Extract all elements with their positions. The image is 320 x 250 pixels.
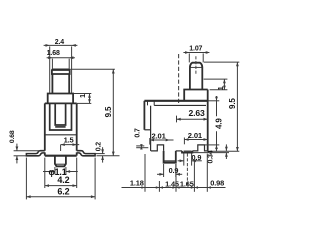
ext bbox=[175, 164, 177, 177]
svg-text:9.5: 9.5 bbox=[104, 106, 113, 117]
U channel metal bottom second line bbox=[55, 126, 65, 128]
svg-text:0.98: 0.98 bbox=[210, 179, 224, 188]
arrow 1.5 left bbox=[61, 143, 65, 146]
arrow 1 top bbox=[88, 94, 91, 98]
button stem left bbox=[51, 74, 53, 94]
extension line top bbox=[208, 100, 219, 102]
arrow 0.2 bottom bbox=[101, 156, 104, 160]
chain extension line bbox=[206, 154, 208, 192]
svg-text:6.2: 6.2 bbox=[57, 187, 69, 197]
extension line bbox=[204, 78, 228, 80]
svg-text:0.2: 0.2 bbox=[95, 142, 102, 152]
arrow 1.68 right (outside) bbox=[69, 56, 73, 59]
arrow 2.4 right (outside) bbox=[72, 44, 76, 47]
extension line post left bbox=[54, 167, 56, 174]
notch vertical bbox=[147, 101, 149, 106]
left mounting foot (bent lead) bbox=[26, 151, 44, 156]
extension line 9.5 top bbox=[70, 68, 115, 70]
body center line (dashed) bbox=[178, 54, 180, 104]
left 2.01 dim line bbox=[150, 139, 174, 141]
arrow 0.34 top (outside) bbox=[225, 147, 228, 151]
arrow 1.68 left (outside) bbox=[48, 56, 52, 59]
arrow up bbox=[140, 146, 143, 150]
body bottom profile with tabs bbox=[151, 145, 164, 151]
plate outer edge bbox=[143, 101, 145, 130]
svg-text:1.18: 1.18 bbox=[130, 178, 144, 187]
tick left (left tab edge extended) bbox=[176, 116, 178, 123]
svg-text:2.4: 2.4 bbox=[55, 39, 65, 46]
svg-text:4.9: 4.9 bbox=[215, 118, 224, 129]
left solder tab bbox=[164, 151, 176, 163]
arrow 4.9 bottom (outside below) bbox=[215, 145, 218, 149]
ext line 2 bbox=[136, 147, 148, 149]
extension line 6.2 left bbox=[25, 158, 27, 200]
plunger center line (dashed) bbox=[195, 56, 197, 74]
svg-text:4.2: 4.2 bbox=[57, 175, 69, 185]
plate bottom end bbox=[144, 129, 150, 131]
tick at centerline bbox=[60, 145, 62, 151]
extension line 2.4 left bbox=[49, 46, 51, 93]
arrow 1.5 right bbox=[73, 143, 77, 146]
post chamfer line bbox=[55, 163, 65, 165]
body left lower edge bbox=[150, 106, 152, 151]
extension line post right bbox=[65, 167, 67, 174]
right solder tab bbox=[182, 151, 192, 153]
extension line bottom bbox=[77, 102, 91, 104]
ext bbox=[191, 153, 193, 165]
svg-text:0.9: 0.9 bbox=[169, 166, 179, 175]
extension line 2.4 right bbox=[71, 46, 73, 93]
right tab inner edge bbox=[184, 150, 192, 152]
extension 1.07 left bbox=[188, 53, 190, 62]
arrow 0.34 bottom (outside) bbox=[225, 153, 228, 157]
extension line top bbox=[204, 61, 239, 63]
chain extension line bbox=[158, 181, 160, 192]
extension line 0.68 bottom bbox=[14, 155, 26, 157]
plunger dome base line bbox=[190, 66, 202, 68]
svg-text:9.5: 9.5 bbox=[228, 98, 237, 109]
extension 1.07 right bbox=[202, 53, 204, 62]
extension line bottom (body bottom extended) bbox=[208, 150, 239, 152]
right tab folded edge line bbox=[184, 151, 192, 153]
body internal shelf line bbox=[45, 134, 77, 136]
U channel inner bbox=[55, 103, 65, 125]
arrow 0.68 bottom bbox=[16, 156, 19, 160]
plunger dome bbox=[190, 63, 202, 68]
plunger right side bbox=[201, 67, 203, 89]
arrow 0.2 top bbox=[101, 149, 104, 153]
svg-text:2.01: 2.01 bbox=[188, 131, 203, 140]
right 2.01 dim line bbox=[184, 139, 207, 141]
extension line 1.68 left bbox=[51, 59, 53, 69]
extension line 0.2 top bbox=[96, 153, 105, 155]
chain extension line bbox=[144, 154, 146, 192]
chain extension line bbox=[175, 164, 177, 192]
ext tab bottom extended bbox=[192, 152, 229, 154]
notch vertical 2 bbox=[153, 101, 155, 106]
lower body sides bbox=[45, 103, 77, 155]
plunger base box bbox=[184, 90, 208, 101]
cap bottom line bbox=[52, 73, 70, 75]
svg-text:2.63: 2.63 bbox=[189, 108, 205, 118]
right mounting foot (bent lead) bbox=[77, 151, 95, 156]
arrow down bbox=[140, 144, 143, 148]
extension line 1.68 right bbox=[68, 59, 70, 69]
extension line 4.2 right bbox=[76, 158, 78, 188]
button stem right bbox=[68, 74, 70, 94]
svg-text:0.68: 0.68 bbox=[9, 130, 16, 143]
chain extension line bbox=[193, 160, 195, 192]
right tab center dashed line bbox=[186, 153, 188, 186]
svg-text:0.7: 0.7 bbox=[134, 128, 141, 138]
body right edge bbox=[207, 90, 209, 151]
body bottom line bbox=[45, 155, 77, 157]
extension line top bbox=[74, 93, 92, 95]
svg-text:1.5: 1.5 bbox=[64, 135, 74, 144]
extension line 9.5 bottom bbox=[97, 155, 120, 157]
arrow 1 bottom bbox=[88, 99, 91, 103]
body shoulder line bbox=[45, 102, 77, 104]
plunger left side bbox=[189, 67, 191, 89]
U channel outer bbox=[50, 103, 72, 130]
tact switch mechanical dimension drawing, two views bbox=[0, 0, 250, 250]
tick bbox=[149, 138, 151, 145]
extension line bbox=[210, 89, 228, 91]
svg-text:1.07: 1.07 bbox=[189, 45, 202, 52]
extension line 0.68 top bbox=[14, 150, 40, 152]
arrow 0.68 top bbox=[16, 147, 19, 151]
body inner lid line bbox=[154, 104, 206, 106]
svg-text:1: 1 bbox=[78, 94, 87, 98]
center locating post (dia 1.1) bbox=[55, 156, 66, 167]
body top line bbox=[144, 100, 207, 102]
extension line 6.2 right bbox=[94, 158, 96, 200]
ext bbox=[183, 153, 185, 165]
button cap (1.68 wide) bbox=[52, 69, 70, 74]
bottom right profile bbox=[192, 145, 207, 151]
svg-text:1.68: 1.68 bbox=[47, 50, 60, 57]
extension line 4.2 left bbox=[44, 158, 46, 188]
tick bbox=[183, 138, 185, 145]
left tab folded edge line bbox=[164, 160, 176, 162]
svg-text:1: 1 bbox=[216, 86, 225, 90]
upper body section (2.4 wide, 1 tall) bbox=[48, 94, 73, 104]
cap top thick line bbox=[52, 69, 70, 71]
ext line bbox=[136, 145, 144, 147]
arrow 4.9 top (outside above) bbox=[215, 97, 218, 101]
arrow 2.4 left (outside) bbox=[46, 44, 50, 47]
ext bbox=[163, 164, 165, 177]
extension line bottom (frame bottom) bbox=[205, 144, 219, 146]
